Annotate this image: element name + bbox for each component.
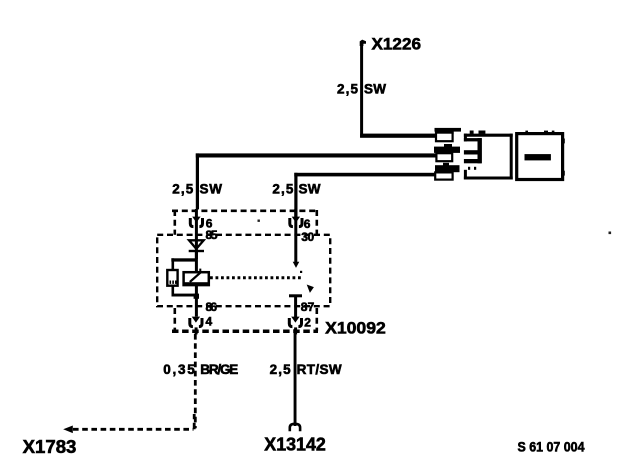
pin 4: socket cup — [190, 318, 202, 327]
terminal lug 3 — [435, 163, 460, 180]
wire to terminal 2 — [196, 153, 199, 209]
wire end tick at X1226 — [360, 40, 366, 46]
connector X10092 outline (dashed plug box) — [172, 210, 318, 331]
svg-text:SW: SW — [364, 82, 386, 97]
svg-text:SW: SW — [299, 181, 321, 196]
component box with bar — [517, 131, 565, 180]
wire coil bottom to junction — [195, 285, 198, 317]
pin 2: arrowhead — [291, 317, 299, 323]
fixed contact 87 T-bar — [289, 294, 302, 297]
wire pin6 right vertical — [294, 209, 297, 263]
pin 4: arrowhead — [192, 317, 200, 323]
wire branch to resistor — [171, 258, 197, 261]
contact blade with arrowhead — [300, 271, 302, 273]
relay coil — [184, 269, 209, 286]
svg-text:RT/SW: RT/SW — [297, 362, 342, 377]
svg-text:2,5: 2,5 — [337, 82, 358, 97]
terminal lug 2 — [434, 144, 460, 161]
svg-text:87: 87 — [301, 300, 315, 314]
contact pivot arrowhead — [293, 262, 300, 268]
wire to terminal 1 — [360, 134, 437, 138]
dotted actuation line — [210, 276, 304, 279]
dashed wire 0,35 BR/GE — [194, 334, 197, 428]
dashed wire to X1783 — [73, 428, 194, 431]
wire to terminal 3 — [294, 173, 297, 219]
wire 2,5 RT/SW solid — [294, 329, 297, 426]
svg-text:X1226: X1226 — [372, 35, 422, 54]
pin 6 left: socket cup — [190, 218, 202, 227]
resistor (parallel to coil) — [167, 270, 177, 286]
terminal lug 1 — [435, 128, 462, 141]
pin 6 right: arrowhead — [292, 217, 300, 223]
svg-text:2,5: 2,5 — [172, 181, 193, 196]
diode (triangle + bar) — [189, 240, 204, 259]
wire 87 down to pin 2 — [294, 297, 297, 318]
svg-text:2,5: 2,5 — [272, 181, 293, 196]
pin 6 left: arrowhead — [192, 217, 200, 223]
svg-text:85: 85 — [206, 228, 218, 242]
wire coil top (from diode to coil) — [195, 252, 198, 273]
svg-text:86: 86 — [206, 300, 218, 314]
svg-text:BR/GE: BR/GE — [200, 362, 238, 377]
pin 2: socket cup — [289, 318, 301, 327]
wire pin2 through box bottom — [294, 327, 297, 334]
svg-text:30: 30 — [301, 230, 314, 244]
svg-text:0,35: 0,35 — [163, 362, 195, 377]
junction dot — [194, 294, 199, 299]
wire below resistor — [172, 286, 175, 295]
svg-text:2,5: 2,5 — [270, 362, 291, 377]
svg-text:X13142: X13142 — [264, 434, 326, 454]
svg-text:X1783: X1783 — [23, 437, 77, 456]
connector housing (comb box) — [464, 131, 513, 180]
svg-text:X10092: X10092 — [325, 318, 386, 337]
wire pin6 left vertical (into relay) — [195, 209, 198, 241]
wire X1226 vertical — [360, 42, 363, 138]
pin 6 right: socket cup — [290, 218, 302, 227]
speck noise — [609, 232, 612, 235]
svg-text:S 61 07 004: S 61 07 004 — [518, 440, 585, 455]
arrowhead at X1783 — [63, 426, 73, 434]
relay K box (dashed, white fill) — [157, 235, 330, 306]
svg-text:4: 4 — [206, 315, 213, 329]
svg-text:2: 2 — [304, 316, 311, 330]
svg-text:SW: SW — [200, 181, 223, 196]
wire pin4 through box bottom — [195, 327, 198, 334]
socket cup at X13142 — [290, 424, 300, 431]
